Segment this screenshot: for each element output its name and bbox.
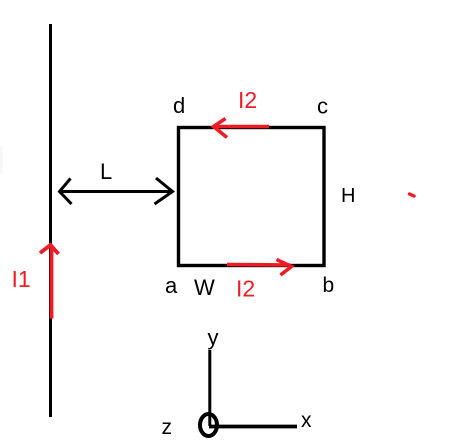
svg-text:d: d	[173, 93, 185, 118]
axis y line	[208, 350, 211, 426]
svg-text:H: H	[341, 185, 355, 207]
rectangular loop abcd	[179, 128, 325, 266]
svg-text:x: x	[301, 409, 312, 432]
svg-text:L: L	[100, 159, 112, 184]
dimension arrow L (double-headed)	[60, 178, 173, 204]
stray red mark	[410, 194, 415, 196]
origin circle (z axis out of page)	[200, 414, 217, 436]
svg-text:c: c	[317, 94, 328, 119]
svg-text:I1: I1	[12, 266, 31, 292]
axis x line	[209, 425, 297, 429]
svg-text:b: b	[323, 274, 335, 297]
current arrow I2 top (pointing left)	[214, 119, 270, 138]
svg-text:I2: I2	[236, 276, 255, 302]
svg-text:y: y	[208, 325, 219, 350]
svg-text:z: z	[162, 416, 173, 439]
svg-text:W: W	[194, 275, 215, 300]
current arrow I1	[40, 245, 59, 319]
wire (long straight vertical, current I1)	[49, 24, 52, 417]
current arrow I2 bottom (pointing right)	[227, 260, 292, 276]
svg-text:a: a	[165, 273, 178, 298]
faint smudge left edge	[0, 147, 3, 173]
svg-text:I2: I2	[238, 87, 257, 113]
